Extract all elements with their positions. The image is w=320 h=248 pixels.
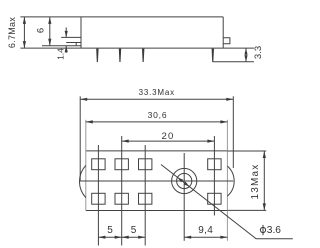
33.3Max left extension <box>79 96 81 181</box>
pin hole square row1 col3 <box>139 159 152 170</box>
arrowhead 33.3Max right <box>226 98 233 101</box>
svg-text:20: 20 <box>162 131 175 142</box>
arrowhead 20 right <box>207 140 214 143</box>
horizontal center line <box>80 180 234 182</box>
side view left detail line H3a <box>61 36 81 38</box>
svg-text:3.3: 3.3 <box>253 46 264 59</box>
svg-text:3.6: 3.6 <box>267 225 281 236</box>
side view detail divider V2 <box>75 43 77 46</box>
mounting hole outer circle <box>172 168 197 193</box>
dimension 1.4 upper arrow tail <box>65 28 67 38</box>
13Max top tick <box>227 150 266 152</box>
arrowhead 1.4 upper <box>65 31 68 38</box>
pin 4 side view <box>212 49 214 62</box>
bottom view body bottom edge <box>86 210 228 212</box>
side view body top line <box>20 16 223 18</box>
svg-text:6.7Max: 6.7Max <box>7 17 17 49</box>
arrowhead phi3.6 lower-right <box>184 182 190 187</box>
left ear arc <box>79 166 85 198</box>
dimension 20 line <box>122 140 215 142</box>
arrowhead 5 span2 right <box>138 236 145 239</box>
arrowhead 5 span1 right <box>115 236 122 239</box>
dimension 3.3 line <box>245 48 247 62</box>
arrowhead 9.4 right <box>220 236 227 239</box>
dimension 30.6 line <box>86 121 228 123</box>
bottom view right edge with extensions <box>226 120 228 241</box>
13Max bottom tick <box>227 209 266 211</box>
dimension 33.3Max line <box>80 98 233 100</box>
bottom view body top edge <box>86 150 228 152</box>
arrowhead 1.4 lower <box>65 46 68 53</box>
pin column line 2 <box>121 136 123 246</box>
dimension 6.7Max line <box>23 17 25 48</box>
svg-text:30,6: 30,6 <box>148 110 168 120</box>
pin 2 side view <box>119 49 121 62</box>
phi 3.6 leader line <box>161 165 293 239</box>
svg-text:9,4: 9,4 <box>198 225 213 236</box>
arrowhead 13Max bottom <box>263 203 266 210</box>
arrowhead phi3.6 upper-left <box>178 177 184 182</box>
arrowhead 9.4 left <box>184 236 191 239</box>
svg-text:6: 6 <box>35 28 46 33</box>
dimension 1.4 lower arrow tail <box>65 46 67 53</box>
arrowhead 13Max top <box>263 151 266 158</box>
pin hole square row2 col3 <box>139 193 152 204</box>
svg-text:5: 5 <box>131 225 137 236</box>
side view left detail line H3b <box>66 42 81 44</box>
arrowhead 33.3Max left <box>80 98 87 101</box>
arrowhead 6.7Max bottom <box>23 41 26 48</box>
side view left step line H2 <box>42 45 81 47</box>
dimension 5 5 line <box>98 236 145 238</box>
pin hole square row2 col2 <box>115 193 128 204</box>
pin hole square row1 col4 <box>208 159 221 170</box>
pin hole square row2 col1 <box>92 193 105 204</box>
pin 1 side view <box>96 49 98 62</box>
arrowhead 30.6 left <box>86 120 93 123</box>
arrowhead 6 top <box>48 17 51 24</box>
hole vertical center line <box>183 153 185 241</box>
pin column line 1 <box>97 145 99 246</box>
arrowhead 30.6 right <box>220 120 227 123</box>
svg-text:1.4: 1.4 <box>56 48 66 60</box>
arrowhead 6.7Max top <box>23 17 26 24</box>
side view body right edge <box>222 17 224 48</box>
pin column line 3 <box>144 145 146 246</box>
dimension 9.4 line <box>184 236 227 238</box>
phi symbol <box>260 225 265 235</box>
arrowhead 5 span1 left <box>98 236 105 239</box>
pin column line 4 <box>213 136 215 216</box>
pin bottom extension line <box>213 61 254 63</box>
dimension 13Max line <box>263 151 265 210</box>
arrowhead 3.3 bottom <box>244 55 247 62</box>
right ear arc <box>227 166 234 196</box>
bottom view left edge with 30.6 extension <box>85 120 87 211</box>
pin hole square row1 col1 <box>92 159 105 170</box>
arrowhead 6 bottom <box>48 39 51 46</box>
33.3Max right extension <box>232 96 234 168</box>
svg-text:13Max: 13Max <box>250 163 261 199</box>
svg-text:5: 5 <box>107 225 113 236</box>
pin hole square row2 col4 <box>208 193 221 204</box>
side view right tab <box>223 38 230 44</box>
arrowhead 20 left <box>122 140 129 143</box>
pin hole square row1 col2 <box>115 159 128 170</box>
side view body bottom line <box>20 47 254 49</box>
side view left internal vertical V1 <box>80 17 82 48</box>
arrowhead 3.3 top <box>244 48 247 55</box>
pin 3 side view <box>142 49 144 62</box>
arrowhead 5 span2 left <box>122 236 129 239</box>
dimension 6 line <box>49 17 51 46</box>
svg-text:33.3Max: 33.3Max <box>139 88 175 97</box>
mounting hole inner circle phi 3.6 <box>177 173 192 188</box>
